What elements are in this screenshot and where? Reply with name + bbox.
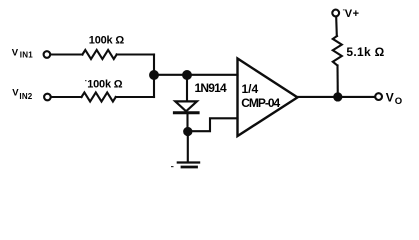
resistor R3 5.1k xyxy=(333,36,342,65)
wire xyxy=(187,132,189,162)
wire xyxy=(186,75,188,100)
diode D1 1N914 xyxy=(174,101,198,112)
terminal VO xyxy=(375,93,382,100)
wire xyxy=(51,96,81,98)
label VO xyxy=(386,91,402,108)
speck before V+ xyxy=(343,9,345,10)
terminal VIN2 xyxy=(44,94,51,101)
node junction xyxy=(150,71,158,79)
wire xyxy=(116,96,154,98)
svg-text:IN1: IN1 xyxy=(20,50,33,59)
label VIN2 xyxy=(12,87,32,100)
svg-text:O: O xyxy=(395,96,402,107)
node junction xyxy=(183,71,191,79)
wire xyxy=(188,118,238,131)
speck near ground xyxy=(171,166,174,167)
svg-text:V+: V+ xyxy=(345,8,360,20)
svg-text:100k Ω: 100k Ω xyxy=(89,35,125,47)
svg-text:V: V xyxy=(386,91,394,105)
svg-text:CMP-04: CMP-04 xyxy=(241,96,280,110)
wire xyxy=(117,53,154,55)
op-amp U1 CMP-04 xyxy=(238,59,298,137)
svg-text:V: V xyxy=(12,47,19,58)
svg-text:IN2: IN2 xyxy=(19,92,32,101)
label VIN1 xyxy=(12,47,33,59)
wire xyxy=(298,96,375,98)
terminal V+ xyxy=(332,10,339,17)
svg-text:5.1k Ω: 5.1k Ω xyxy=(346,45,384,59)
speck before 100k R2 xyxy=(85,80,87,81)
wire xyxy=(336,65,338,97)
node junction xyxy=(334,93,341,100)
resistor R1 100k xyxy=(82,50,116,59)
node junction xyxy=(184,128,191,135)
resistor R2 100k xyxy=(82,93,116,102)
svg-text:100k Ω: 100k Ω xyxy=(87,78,123,90)
wire xyxy=(153,55,155,98)
svg-text:1N914: 1N914 xyxy=(195,81,227,95)
terminal VIN1 xyxy=(44,51,51,58)
svg-text:V: V xyxy=(12,87,19,98)
wire xyxy=(335,17,338,36)
svg-text:1/4: 1/4 xyxy=(242,82,259,96)
ground xyxy=(178,163,199,168)
wire xyxy=(186,114,188,131)
wire xyxy=(154,74,238,76)
wire xyxy=(51,53,83,55)
